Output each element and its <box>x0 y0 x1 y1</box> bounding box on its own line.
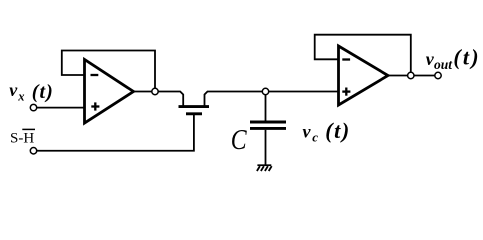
svg-text:v: v <box>9 80 18 100</box>
svg-text:C: C <box>231 123 247 156</box>
svg-text:(t): (t) <box>453 45 480 70</box>
svg-text:(t): (t) <box>32 81 54 103</box>
svg-text:v: v <box>303 121 312 141</box>
svg-text:(t): (t) <box>325 118 351 143</box>
svg-text:S-H: S-H <box>10 131 34 147</box>
svg-text:out: out <box>434 57 453 72</box>
svg-text:x: x <box>17 89 24 103</box>
svg-text:c: c <box>312 130 318 145</box>
